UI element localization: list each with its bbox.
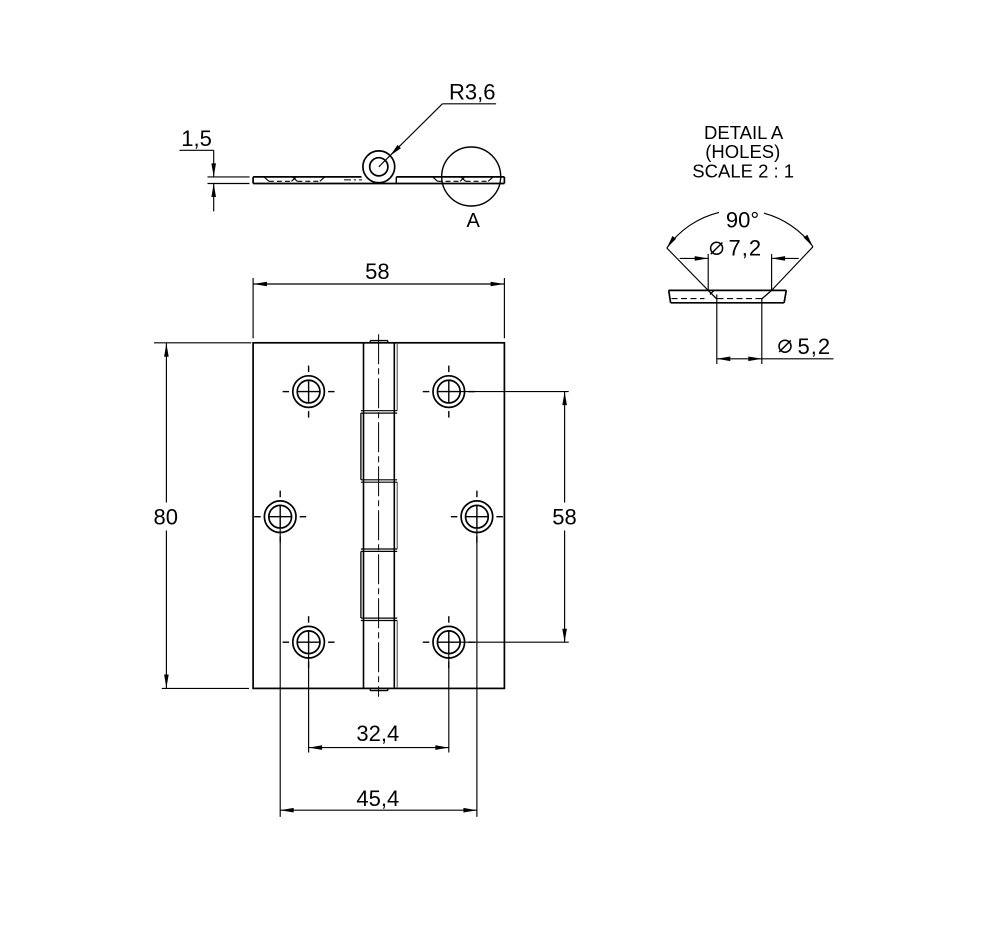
detail part left break edge (669, 290, 671, 302)
hole wall extension line left (716, 295, 718, 365)
dimension 1,5 extension lines (208, 176, 250, 178)
plate right end cap (503, 177, 505, 184)
knuckle column left edge (363, 343, 365, 689)
dimension 1,5 leader and arrows (180, 149, 214, 151)
angle dimension arrowheads (667, 236, 676, 248)
svg-text:1,5: 1,5 (181, 126, 212, 151)
dimension dia 5,2 line and arrows (717, 358, 834, 360)
plate top edge (left of knuckle) (253, 176, 361, 178)
extension line from bottom-left hole down (308, 654, 310, 753)
leaf curl centerline dash-dot (344, 179, 362, 181)
dimension 58 right line and arrows (564, 392, 566, 503)
svg-text:90°: 90° (726, 207, 759, 232)
countersunk hole middle-left (264, 501, 296, 533)
svg-text:32,4: 32,4 (356, 721, 399, 746)
svg-text:80: 80 (153, 505, 177, 530)
knuckle tangent edge right (segments 1,3,5) (396, 343, 398, 411)
detail part right break edge (784, 290, 786, 302)
dimension text dia 7,2 (711, 242, 723, 254)
dimension text dia 5,2 (779, 340, 791, 352)
center mark top-right hole (423, 391, 430, 393)
dimension 45,4 line and arrows (280, 809, 477, 811)
countersunk hole bottom-left (293, 626, 325, 658)
hidden hole line in detail (672, 298, 705, 300)
hole wall extension line right (761, 299, 763, 364)
hidden countersunk holes right pair (433, 177, 437, 181)
center mark bottom-left hole (283, 641, 290, 643)
svg-text:58: 58 (365, 259, 389, 284)
hinge pin centerline (378, 334, 380, 697)
knuckle tangent edge left (segments 2,4) (360, 413, 362, 480)
countersunk hole top-left (293, 376, 325, 408)
leader line R3,6 (442, 103, 496, 105)
knuckle pin inner circle (370, 158, 388, 176)
center mark top-left hole (283, 391, 290, 393)
svg-text:7,2: 7,2 (729, 236, 763, 261)
svg-text:DETAIL A: DETAIL A (704, 122, 784, 143)
plate bottom edge (253, 183, 504, 185)
center mark middle-left hole (254, 516, 261, 518)
center mark middle-right hole (451, 516, 458, 518)
plate left end cap (252, 177, 254, 184)
svg-text:A: A (467, 210, 481, 232)
svg-text:58: 58 (552, 505, 576, 530)
dimension dia 7,2 extension lines (707, 254, 709, 290)
countersink right cone edge extended to angle dim (762, 290, 772, 299)
center mark bottom-right hole (423, 641, 430, 643)
extension line from bottom-right hole down (448, 654, 450, 753)
reference line from bottom-right hole to 58 dim (460, 641, 569, 643)
detail part bottom surface (671, 302, 785, 304)
dimension dia 7,2 lines and arrows (680, 257, 709, 259)
plate top edge (right of knuckle) (396, 176, 504, 178)
neighbor hole cone edge (710, 290, 714, 294)
leader arrowhead R3,6 (390, 145, 401, 156)
countersink left cone extended to angle dim (667, 248, 708, 290)
dimension 80 extension lines (154, 342, 251, 344)
front view: hinge plate outline (253, 343, 504, 689)
svg-text:45,4: 45,4 (356, 786, 399, 811)
dimension 32,4 line and arrows (309, 747, 449, 749)
right leaf edge at knuckle (395, 177, 397, 184)
knuckle column right edge (393, 343, 395, 689)
hidden countersunk holes left pair (265, 177, 269, 181)
knuckle outer circle (363, 151, 395, 183)
detail view circle A (442, 147, 501, 206)
svg-text:(HOLES): (HOLES) (705, 141, 780, 162)
countersunk hole bottom-right (433, 626, 465, 658)
extension line from middle-right hole down (476, 529, 478, 817)
hinge pin bottom cap (370, 690, 388, 692)
angle dimension 90 arcs (667, 212, 719, 248)
countersunk hole top-right (433, 376, 465, 408)
detail part top surface (669, 289, 787, 291)
side view: hinge edge view group (253, 151, 504, 184)
extension line from middle-left hole down (279, 529, 281, 817)
hinge pin top cap (370, 340, 388, 342)
countersink left cone edge (708, 290, 717, 299)
countersunk hole middle-right (461, 501, 493, 533)
dimension 80 line and arrows (165, 343, 167, 502)
svg-text:5,2: 5,2 (798, 334, 832, 359)
dimension 58 top extension lines (252, 278, 254, 338)
dimension 58 top line and arrows (253, 283, 504, 285)
knuckle segment break lines (361, 410, 397, 412)
reference line from top-right hole to 58 dim (460, 391, 569, 393)
svg-text:SCALE 2 : 1: SCALE 2 : 1 (692, 160, 794, 181)
svg-text:R3,6: R3,6 (449, 80, 495, 105)
